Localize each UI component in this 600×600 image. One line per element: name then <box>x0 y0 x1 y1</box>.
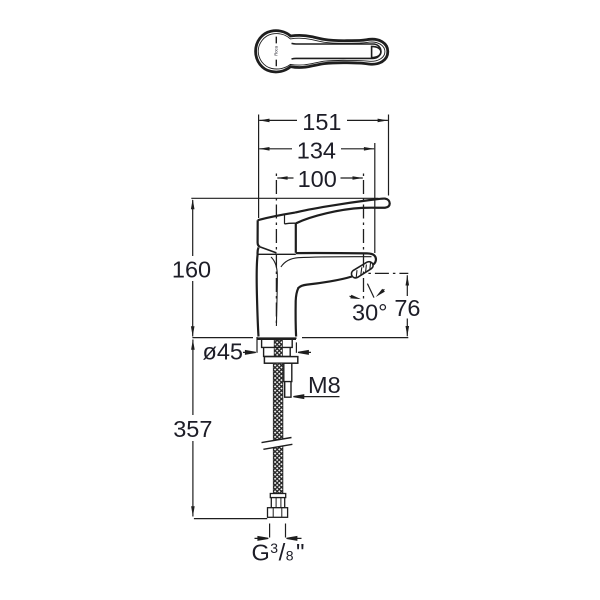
aerator hatch lines <box>356 262 370 278</box>
label M8 leader line <box>293 395 339 399</box>
hose break line upper <box>262 438 292 443</box>
dimension 151 extension line left <box>258 115 260 219</box>
dimension 160 arrow down <box>191 326 195 336</box>
hose end collar <box>270 494 285 498</box>
side view body top joint line <box>258 253 296 255</box>
svg-text:76: 76 <box>394 295 420 321</box>
svg-text:Roca: Roca <box>274 45 279 55</box>
side view lever cap top edge <box>258 213 295 221</box>
flexible hose braid upper <box>273 363 283 439</box>
svg-text:ø45: ø45 <box>203 339 244 365</box>
hose break gap mask <box>258 437 295 450</box>
side view spout underside curve <box>298 277 352 289</box>
dimension 160 top extension line <box>191 197 378 199</box>
dimension o45 right arrow <box>298 351 311 355</box>
svg-text:30°: 30° <box>352 299 388 325</box>
side view spout top edge <box>296 253 376 264</box>
dimension 134 line <box>259 148 374 150</box>
dimension 151 extension line right <box>388 115 390 196</box>
dimension 160 line <box>192 200 194 337</box>
flexible hose braid lower <box>273 446 283 494</box>
dimension 357 bottom reference line <box>194 518 267 520</box>
side view base bottom edge <box>257 337 297 339</box>
side view lever outline <box>295 199 390 224</box>
dimension 76 line <box>406 275 408 336</box>
top view handle inner offset line <box>258 34 385 69</box>
top view center dashed line <box>275 37 277 67</box>
top view lever slot outline <box>292 43 381 59</box>
dimension 100 arrow left <box>277 176 287 180</box>
side view lever pivot notch <box>284 214 286 224</box>
fitting neck <box>271 498 284 508</box>
dimension 357 line <box>192 340 194 517</box>
side view body right contour <box>296 288 299 336</box>
M8 stud upper <box>284 363 292 381</box>
angle 30 face direction line <box>367 284 374 298</box>
angle 30 arrow toward centerline <box>350 296 357 298</box>
svg-text:G3/8": G3/8" <box>252 540 305 567</box>
centerline spout outlet dash-dot <box>363 174 365 302</box>
svg-text:151: 151 <box>302 109 341 135</box>
svg-text:100: 100 <box>298 166 337 192</box>
M8 stud lower <box>285 382 291 398</box>
dimension o45 left arrow <box>243 351 256 355</box>
dimension G38 right arrow <box>287 537 302 541</box>
dimension 100 arrow right <box>353 176 363 180</box>
dimension o45 right tick <box>295 342 297 352</box>
G3/8 hex nut <box>268 508 288 518</box>
angle 30 arrow toward face line <box>381 289 385 293</box>
hose break line lower <box>263 444 292 449</box>
dimension G38 left arrow <box>255 537 269 541</box>
dimension G38 left extension <box>269 524 271 538</box>
fitting neck facet lines <box>276 498 281 508</box>
dimension 134 arrow left <box>259 147 269 151</box>
dimension 357 arrow down <box>191 506 195 516</box>
dimension G38 right extension <box>285 524 287 538</box>
side view aerator face <box>351 262 373 278</box>
dimension 100 line <box>277 177 363 179</box>
side view body inner curve <box>271 257 277 326</box>
dimension o45 left tick <box>256 337 258 353</box>
flange <box>264 357 297 364</box>
hex nut facet lines <box>273 508 282 518</box>
shank step 2 outline <box>264 347 291 356</box>
dimension 134 extension line right <box>374 143 376 253</box>
svg-text:357: 357 <box>173 416 212 442</box>
mounting surface line right <box>302 337 408 339</box>
threaded shank braid <box>274 340 282 357</box>
side view spout inner top line <box>281 257 372 267</box>
dimension 134 arrow right <box>364 147 374 151</box>
top view lever end cap D detail <box>372 46 381 57</box>
dimension 76 arrow up <box>406 275 410 285</box>
dimension 151 arrow left <box>259 119 269 123</box>
side view cap front edge <box>295 223 297 253</box>
svg-text:160: 160 <box>172 257 211 283</box>
top view handle outer outline <box>256 31 388 72</box>
dimension 151 arrow right <box>378 119 388 123</box>
centerline body axis dash-dot <box>275 174 277 328</box>
dimension 76 arrow down <box>406 326 410 336</box>
mounting surface line left <box>192 337 253 339</box>
dimension 151 line <box>259 119 388 121</box>
side view base bottom rim <box>258 338 297 340</box>
side view cap left edge <box>258 220 260 247</box>
svg-text:134: 134 <box>297 138 336 164</box>
svg-text:M8: M8 <box>308 372 341 398</box>
shank step 1 outline <box>262 339 293 347</box>
side view body left contour <box>257 248 259 337</box>
dimension 160 arrow up <box>191 199 195 209</box>
side view lever left end underside <box>285 222 297 225</box>
outlet height dash-dot line <box>368 272 408 274</box>
side view cap bottom tilt line <box>260 247 276 253</box>
dimension 357 arrow up <box>191 340 195 350</box>
